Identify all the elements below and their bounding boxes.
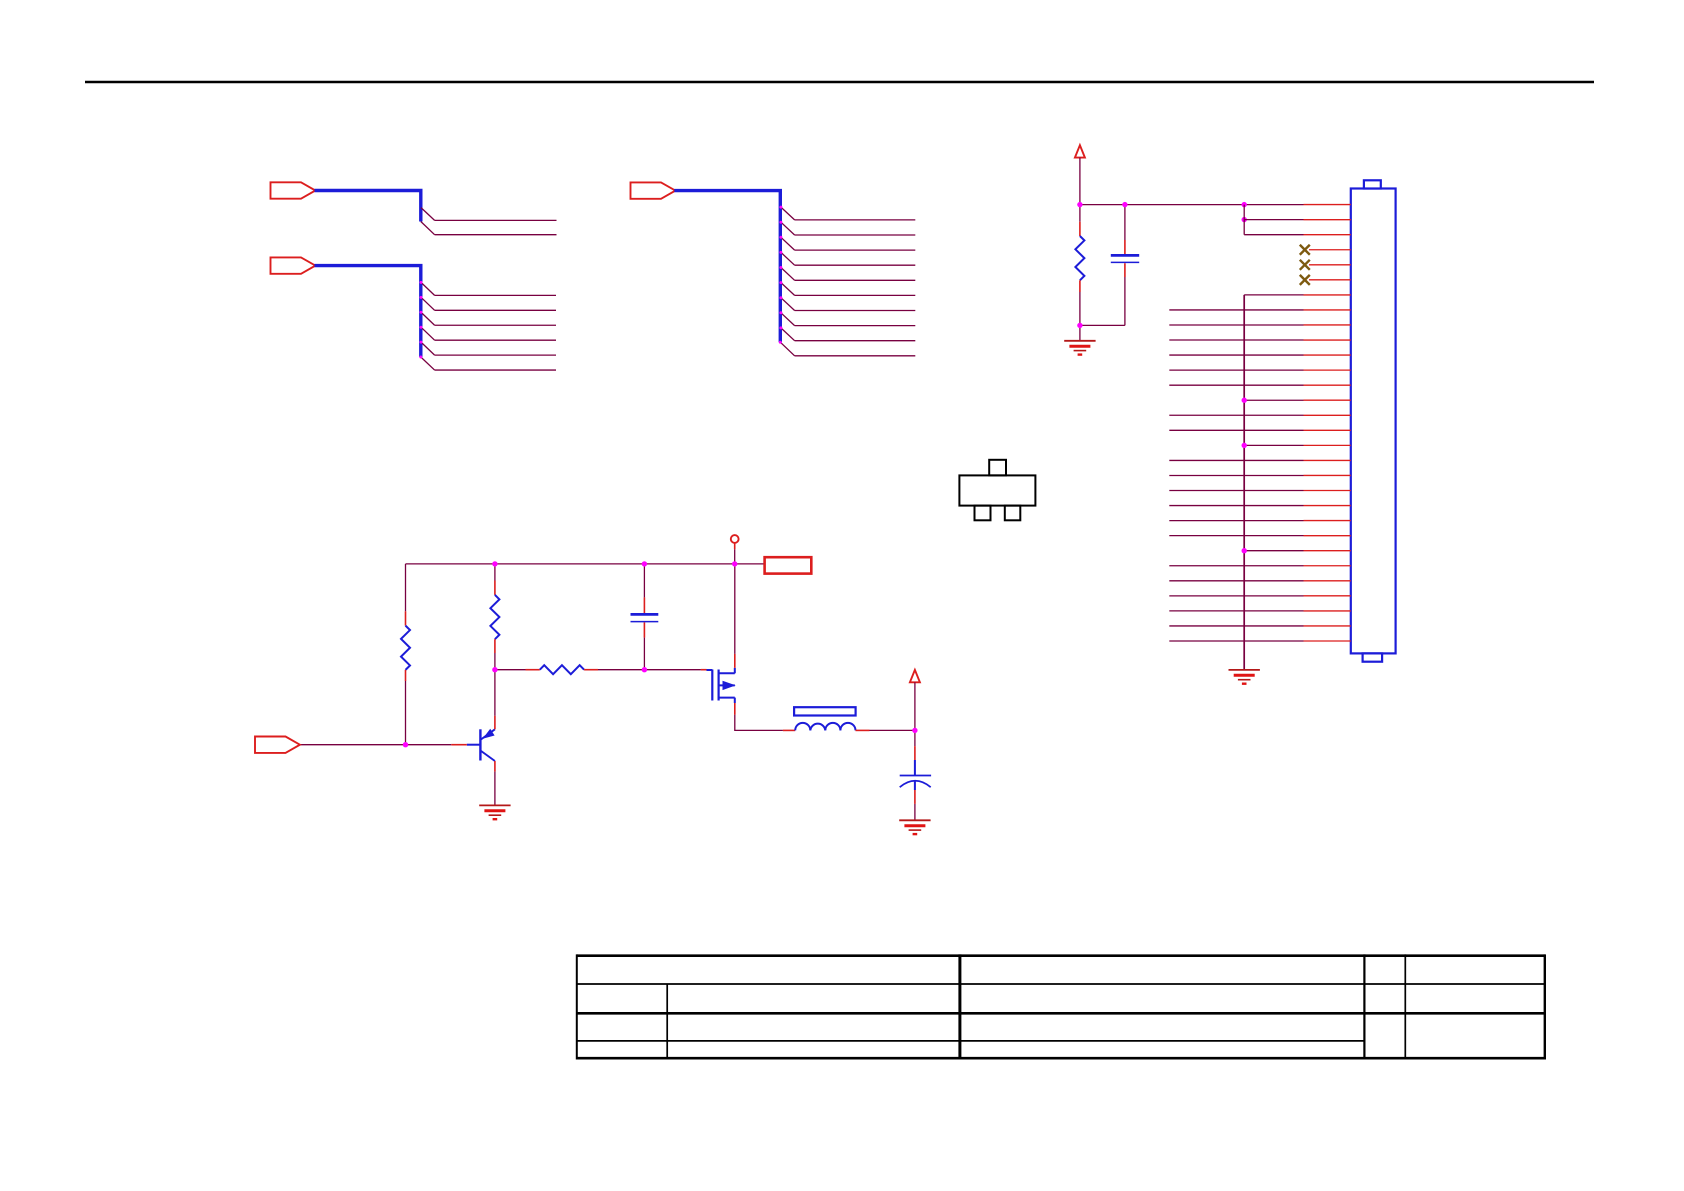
wire B3 branch 7 (779, 296, 915, 310)
wire B3 branch 5 (779, 266, 915, 280)
connector J1 body (1351, 180, 1396, 661)
wire pin13 stub left (1169, 384, 1303, 386)
wire pin24 from GND bus (1242, 548, 1304, 553)
no-connect X pin4 (1300, 245, 1310, 255)
capacitor C1 (1111, 205, 1139, 326)
net label box (765, 557, 812, 573)
wire B1 branch 2 (421, 222, 557, 235)
bus B1 (315, 191, 421, 222)
wire B3 branch 9 (779, 326, 915, 340)
wire pin26 stub left (1169, 580, 1303, 582)
port P1 (271, 182, 316, 198)
wire L1 to node (870, 729, 915, 731)
no-connect X pin5 (1300, 260, 1310, 270)
wire pin8 stub left (1169, 309, 1303, 311)
no-connect X pin6 (1300, 275, 1310, 285)
wire VCC rail (1080, 204, 1304, 206)
wire pin16 stub left (1169, 429, 1303, 431)
wire pin3 elbow (1244, 205, 1303, 235)
wire pin30 stub left (1169, 640, 1303, 642)
wire pin23 stub left (1169, 535, 1303, 537)
wire B3 branch 6 (779, 281, 915, 295)
wire to net label (735, 563, 765, 565)
wire pin9 stub left (1169, 324, 1303, 326)
wire B3 branch 2 (779, 221, 915, 235)
wire pin29 stub left (1169, 625, 1303, 627)
wire B2 branch 3 (420, 311, 557, 326)
wire B2 branch 6 (419, 356, 556, 371)
wire pin2 (1244, 219, 1303, 221)
wire pin27 stub left (1169, 595, 1303, 597)
resistor R2 (401, 564, 410, 745)
wire B2 branch 4 (420, 326, 557, 341)
wire pin22 stub left (1169, 520, 1303, 522)
inductor L1 (783, 707, 870, 730)
test point circle (731, 535, 739, 564)
bus B3 (674, 191, 780, 343)
wire B3 branch 3 (779, 236, 915, 250)
sheet top border line (85, 81, 1594, 84)
wire B2 branch 2 (420, 296, 557, 311)
wire gate (644, 669, 706, 671)
transistor Q2 (NMOS) (707, 668, 735, 703)
resistor R4 (495, 665, 645, 674)
port P4 (255, 737, 300, 753)
wire B3 branch 10 (779, 341, 916, 356)
wire Q2 drain (734, 564, 736, 668)
wire Q2 source (735, 703, 783, 730)
port P2 (271, 257, 316, 273)
capacitor C3 (polarized) (900, 730, 931, 820)
wire Q1 base (300, 744, 467, 746)
wire B3 branch 8 (779, 311, 915, 325)
ground GND4 (1229, 670, 1260, 684)
wire C1 to R1 bottom (1080, 324, 1125, 326)
wire pin21 stub left (1169, 505, 1303, 507)
wire pin25 stub left (1169, 565, 1303, 567)
junction dots power net (1077, 202, 1247, 328)
wire B1 branch 1 (421, 208, 557, 221)
wire B2 branch 5 (420, 341, 557, 356)
transistor Q1 (BJT) (467, 729, 495, 761)
wire B3 branch 4 (779, 251, 915, 265)
wire pin18 stub left (1169, 459, 1303, 461)
bus B2 (315, 266, 421, 357)
wire Q1 top lead (494, 670, 496, 730)
wire pin19 stub left (1169, 474, 1303, 476)
wire B2 branch 1 (420, 281, 557, 296)
GND bus vertical (1243, 295, 1245, 670)
wire pin12 stub left (1169, 369, 1303, 371)
resistor R3 (490, 564, 499, 670)
wire B3 branch 1 (779, 206, 915, 220)
wire pin20 stub left (1169, 490, 1303, 492)
wire pin10 stub left (1169, 339, 1303, 341)
wire pin14 from GND bus (1242, 398, 1304, 403)
title block table (577, 954, 1545, 1059)
junction dots lower circuit (403, 561, 918, 747)
resistor R1 (1075, 205, 1084, 341)
wire Q1 bottom lead (494, 761, 496, 805)
ground GND2 (479, 805, 510, 819)
wire pin15 stub left (1169, 414, 1303, 416)
power VCC1 (1075, 145, 1085, 204)
component outline U1 (SOT-23) (959, 460, 1035, 521)
connector J1 pin stubs (30 pins) (1304, 205, 1351, 641)
wire top rail (406, 563, 735, 565)
ground GND3 (899, 820, 930, 834)
wire pin11 stub left (1169, 354, 1303, 356)
wire pin7 to GND bus (1244, 294, 1303, 296)
power VCC2 (910, 670, 920, 731)
capacitor C2 (631, 564, 659, 670)
wire pin28 stub left (1169, 610, 1303, 612)
wire pin17 from GND bus (1242, 443, 1304, 448)
ground GND1 (1064, 341, 1095, 355)
port P3 (631, 182, 676, 198)
